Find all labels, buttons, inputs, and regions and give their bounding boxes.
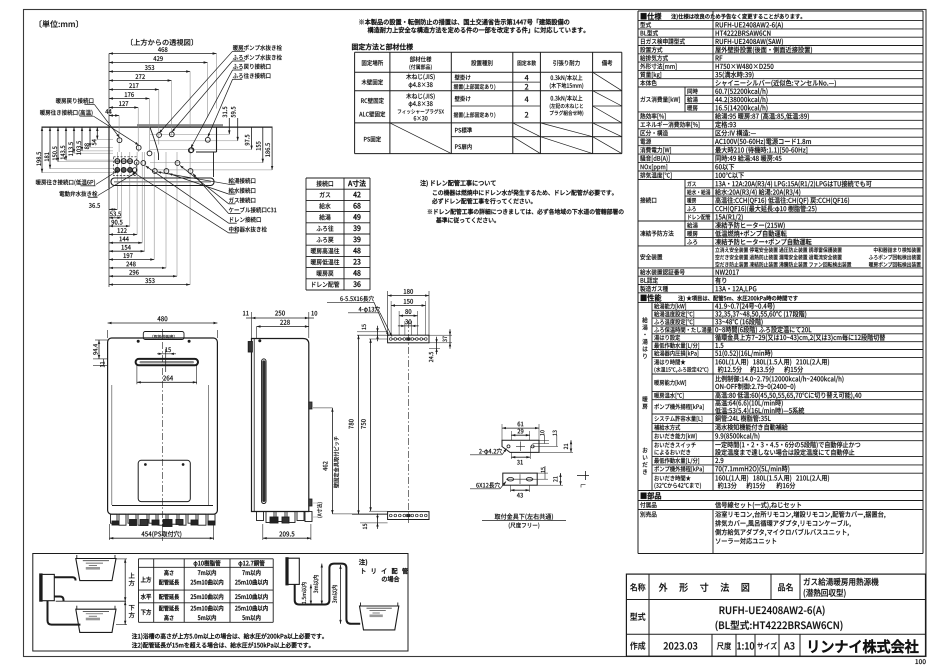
bracket center line: [407, 321, 409, 524]
bracket 750 dim: [369, 338, 388, 340]
left piping diagram heater: [41, 574, 55, 600]
label ふろ戻り接続口 + leader: [233, 64, 271, 70]
detail lower 21 dim: [537, 484, 563, 486]
bracket 37 dim right: [429, 334, 452, 336]
side view A寸法 label: [317, 502, 323, 517]
label 暖房戻り接続口 + leader: [56, 98, 93, 104]
spec section header 性能: [638, 292, 923, 294]
front view inner panel lines: [111, 385, 113, 505]
fixing method table: [355, 52, 622, 153]
label 暖房往き接続口(低温6P) + leader: [36, 179, 95, 185]
left piping datum line: [56, 600, 126, 602]
front view bottom connection stubs: [111, 514, 216, 526]
label ケーブル接続口C31 + leader: [229, 207, 277, 213]
page number 100: [915, 659, 925, 664]
side view bottom stubs: [257, 512, 313, 524]
spec section header 仕様: [638, 10, 923, 12]
front view access panel: [138, 460, 190, 501]
side view wall bracket top: [248, 342, 252, 353]
label 6-5.5X16長穴 + leader: [340, 296, 374, 302]
right piping tub: [360, 606, 399, 630]
front view left dims 94.4 and 11: [95, 339, 108, 341]
corner mark: [577, 475, 589, 477]
top view unit outline: [109, 127, 217, 188]
bracket top 15 dim: [357, 331, 388, 333]
left piping 上方 dim: [116, 558, 127, 560]
side view top screw: [259, 340, 261, 342]
detail upper 31 dim: [510, 452, 512, 459]
detail upper 29 dim: [510, 431, 512, 440]
detail lower slots: [507, 477, 513, 481]
bracket 780 dim: [357, 334, 388, 336]
spec perf group labels: [638, 301, 923, 303]
label ふろ往き接続口 + leader: [233, 73, 271, 79]
label 暖房ポンプ水抜き栓 + leader: [233, 45, 282, 51]
left piping upper tub: [76, 559, 116, 581]
top view left dimension ladder: [36, 127, 113, 173]
side view body: [252, 339, 309, 512]
front view exhaust slot: [136, 359, 198, 365]
front view 15 dim: [165, 347, 171, 352]
bracket 462 pitch dim: [313, 407, 332, 409]
top view low-temp port box (dashed): [114, 157, 137, 176]
side view 209.5 dim: [262, 524, 264, 540]
right piping dim 3m-1: [321, 564, 323, 605]
side view 228 dim: [257, 326, 309, 328]
bracket bottom bar: [388, 512, 429, 520]
top view right dimension ladder: [150, 107, 273, 170]
label 6X12長穴 + leader: [476, 482, 500, 488]
front view body: [108, 338, 218, 514]
piping diagram box: [33, 554, 408, 652]
drain piping note: [420, 180, 623, 223]
right piping pipe run: [295, 564, 361, 624]
front view 454 dim: [108, 524, 110, 540]
bracket 24.5 dim right: [429, 347, 440, 349]
detail upper bracket outline: [502, 440, 539, 452]
label 取付金具下(左右共通): [495, 513, 553, 520]
detail upper holes: [507, 445, 510, 448]
fixing table title: [352, 43, 413, 50]
right piping dim 1.5m: [310, 584, 312, 604]
detail upper 21 dim: [539, 451, 573, 453]
label 中和器水抜き栓 + leader: [229, 226, 267, 232]
A寸法 table: [306, 178, 370, 290]
left piping lower tub: [76, 609, 116, 632]
label 暖房往き接続口(高温) + leader: [40, 110, 92, 116]
top view upper dimension ladder: [105, 47, 216, 152]
left piping lower pipe: [54, 597, 63, 602]
spec table outer borders: [637, 11, 639, 554]
right piping dim 3m-2: [340, 565, 342, 624]
detail lower 15 dim: [537, 472, 548, 474]
label 4-φ13穴 + leader: [359, 306, 380, 312]
spec parts rows: [638, 500, 923, 502]
label ふろポンプ水抜き栓 + leader: [233, 54, 282, 60]
label ドレン接続口 + leader: [230, 217, 261, 223]
piping length table: [139, 559, 274, 623]
side view right edge mounts: [309, 402, 312, 409]
top view lower dimension ladder: [89, 152, 190, 287]
front view center line: [161, 329, 163, 541]
spec table: [638, 11, 923, 554]
label 2-φ4.2穴 + leader: [479, 448, 502, 454]
title block: [626, 574, 925, 656]
front view 264 dim: [136, 365, 138, 384]
left piping 下方 dim: [116, 624, 127, 626]
top view title: [131, 39, 193, 46]
side view exhaust side bar: [262, 359, 266, 504]
notice text: [359, 19, 569, 25]
bracket top bar: [388, 335, 429, 343]
detail upper 10/13 dims: [539, 439, 549, 441]
right piping diagram heater: [287, 558, 299, 584]
piping notes: [132, 633, 324, 640]
detail upper 61 dim: [501, 424, 503, 440]
unit note: [40, 20, 78, 28]
left piping upper pipe: [54, 577, 75, 580]
label 給水接続口 + leader: [229, 188, 256, 194]
top view front cover bar: [111, 178, 214, 186]
front view name plate: [143, 332, 184, 340]
label 電動弁水抜き栓 + leader: [59, 191, 97, 197]
top view port circles: [115, 132, 210, 174]
front view top screws: [137, 340, 139, 342]
label 給湯接続口 + leader: [229, 178, 256, 184]
detail lower 43 dim: [510, 485, 512, 492]
label ガス接続口 + leader: [229, 197, 255, 203]
bracket bottom 15 dim: [360, 522, 388, 524]
top view wall line: [42, 126, 273, 128]
side view 250 dim with 11 and 10: [251, 312, 253, 338]
spec section header 部品: [638, 490, 923, 492]
front view 480 dim: [107, 330, 109, 338]
detail lower outline: [503, 473, 537, 485]
right piping note: [359, 559, 367, 566]
bracket view top dims 180/150/80/30: [387, 291, 389, 335]
